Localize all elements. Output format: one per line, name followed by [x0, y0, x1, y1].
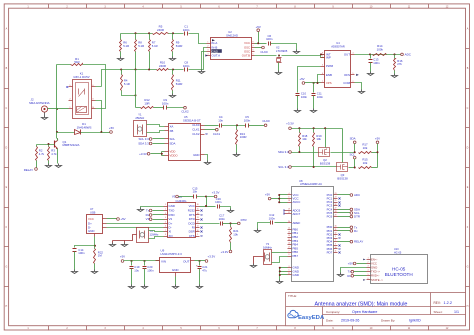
node rail junctions mid	[120, 69, 122, 71]
resistor R5	[153, 33, 169, 35]
wire SCL 3.3 row	[292, 166, 337, 168]
svg-text:OUT: OUT	[183, 260, 190, 264]
svg-text:100n: 100n	[215, 200, 222, 204]
EasyEDA logo	[288, 310, 298, 317]
svg-text:2019-09-26: 2019-09-26	[341, 319, 359, 323]
svg-text:20: 20	[288, 221, 290, 223]
svg-text:OFS: OFS	[344, 73, 350, 77]
svg-text:4.7k: 4.7k	[39, 152, 45, 156]
wire VCC rail MCU	[280, 194, 288, 196]
ground under C21	[197, 285, 203, 289]
wire PC5 SCL	[338, 212, 351, 214]
wire ladder drop	[135, 70, 137, 108]
no-connect HC-05 STATE	[363, 279, 365, 281]
svg-text:100n: 100n	[317, 95, 324, 99]
capacitor C10	[296, 94, 300, 96]
svg-text:11: 11	[335, 251, 337, 253]
svg-text:REV:: REV:	[434, 301, 441, 305]
svg-text:SDA 3.3: SDA 3.3	[278, 150, 289, 154]
capacitor C5	[246, 124, 249, 128]
IC U8 ATMEGA328P	[292, 187, 334, 282]
relay K1	[73, 80, 92, 119]
svg-text:+5V: +5V	[348, 262, 353, 266]
svg-text:5.1R: 5.1R	[152, 44, 158, 48]
svg-text:SDA 3.3: SDA 3.3	[138, 142, 149, 146]
wire HC-05 TXD	[354, 271, 367, 273]
node R4 tap	[135, 94, 137, 96]
ground under C11	[311, 109, 317, 113]
svg-text:SDA: SDA	[350, 137, 356, 141]
wire CLK0 out	[205, 125, 219, 127]
ground under C13	[368, 72, 374, 76]
svg-text:LM1117MPX-3.3: LM1117MPX-3.3	[161, 252, 183, 256]
svg-text:100n: 100n	[301, 95, 308, 99]
port CLK2 in	[184, 106, 187, 109]
svg-text:3: 3	[322, 64, 323, 66]
svg-text:5.1R: 5.1R	[124, 82, 130, 86]
svg-text:510R: 510R	[176, 44, 183, 48]
resistor R4	[121, 70, 123, 75]
svg-text:31: 31	[335, 229, 337, 231]
svg-text:10k: 10k	[302, 137, 307, 141]
svg-text:+3.3V: +3.3V	[139, 152, 147, 156]
port CLK1 out	[205, 129, 216, 131]
svg-text:XA: XA	[170, 125, 174, 129]
svg-text:CLK0: CLK0	[192, 123, 200, 127]
svg-text:H: H	[6, 305, 8, 308]
wire U2 OUT.B	[255, 55, 277, 57]
wire C5 to port	[249, 125, 265, 127]
svg-text:VIN: VIN	[161, 260, 166, 264]
svg-text:CTS: CTS	[189, 234, 195, 238]
svg-text:10k: 10k	[363, 161, 368, 165]
svg-text:2: 2	[335, 240, 336, 242]
svg-text:Antenna analyzer (SMD): Main m: Antenna analyzer (SMD): Main module	[315, 302, 408, 308]
ground at Y3	[251, 264, 257, 268]
svg-text:IgrikXD: IgrikXD	[409, 319, 421, 323]
port V3 CH340	[153, 219, 164, 221]
wire regulator gnd	[175, 277, 177, 285]
svg-text:H: H	[467, 305, 469, 308]
wire OSC port	[255, 47, 262, 49]
node OUT junctions	[369, 53, 371, 55]
svg-text:DTR: DTR	[241, 218, 247, 222]
ground under R22	[92, 270, 98, 274]
resistor R19	[313, 129, 315, 133]
port SCL 5V	[353, 156, 356, 159]
resistor R22	[94, 246, 96, 249]
ground under R16	[392, 74, 398, 78]
wire D1 to +5V	[102, 132, 110, 134]
svg-text:+5V: +5V	[120, 217, 125, 221]
no-connect PC1-PC3	[339, 198, 341, 200]
capacitor C8	[185, 68, 188, 72]
IC U6 CH340G	[168, 203, 196, 238]
svg-text:7: 7	[289, 250, 290, 252]
node +3.3V rail junctions	[298, 127, 300, 129]
svg-text:2: 2	[208, 46, 209, 48]
capacitor C16	[218, 205, 220, 209]
svg-text:14: 14	[197, 213, 199, 215]
svg-text:2: 2	[165, 209, 166, 211]
node USB gnd junction	[94, 245, 96, 247]
ground under J2	[44, 113, 46, 116]
port SDA 3.3 shifter	[289, 151, 292, 154]
svg-text:OUT: OUT	[344, 52, 350, 56]
svg-text:1N4148WS: 1N4148WS	[77, 125, 92, 129]
wire Y2 to XO	[149, 237, 164, 239]
wire PD4 RELAY	[338, 241, 351, 243]
svg-text:16: 16	[288, 243, 290, 245]
svg-text:G5V-1 DC5V: G5V-1 DC5V	[73, 75, 89, 79]
svg-text:+5V: +5V	[299, 77, 304, 81]
svg-text:47u: 47u	[202, 268, 207, 272]
wire HC-05 gnd	[341, 268, 367, 273]
svg-text:R232: R232	[188, 208, 195, 212]
svg-text:GND: GND	[193, 153, 199, 157]
svg-text:10k: 10k	[363, 146, 368, 150]
svg-text:ADC: ADC	[405, 52, 412, 56]
ground under R9	[170, 57, 176, 61]
svg-text:15: 15	[197, 209, 199, 211]
capacitor C9	[164, 106, 167, 110]
svg-text:1: 1	[335, 236, 336, 238]
svg-text:U2: U2	[228, 30, 232, 34]
capacitor C11	[313, 83, 315, 93]
svg-text:Tx: Tx	[146, 209, 150, 213]
capacitor C21	[199, 261, 201, 266]
svg-text:3: 3	[165, 213, 166, 215]
wire C15 to port	[197, 196, 215, 198]
svg-text:29: 29	[335, 215, 337, 217]
svg-text:SA612AD: SA612AD	[226, 33, 238, 37]
wire VPS to +5V	[305, 82, 321, 84]
node D1 junction	[100, 131, 102, 133]
svg-text:10u: 10u	[134, 268, 139, 272]
node R18 SDA junction	[298, 151, 300, 153]
svg-text:19: 19	[288, 208, 290, 210]
wire X2 to ground	[278, 63, 280, 71]
no-connect U4 OFS	[356, 74, 359, 76]
node VCC340 junction	[205, 196, 207, 198]
ground at HC-05	[338, 273, 344, 277]
wire MCU gnd rail	[280, 267, 288, 269]
svg-text:10: 10	[92, 107, 94, 109]
resistor R1	[71, 64, 83, 66]
svg-text:8: 8	[253, 41, 254, 43]
svg-text:TITLE:: TITLE:	[288, 294, 297, 298]
svg-text:4: 4	[353, 52, 354, 54]
ground under R6	[118, 57, 124, 61]
svg-text:23: 23	[335, 193, 337, 195]
svg-text:CLK1: CLK1	[213, 132, 221, 136]
svg-text:8: 8	[165, 234, 166, 236]
wire OUT rail	[195, 260, 206, 262]
svg-text:2: 2	[70, 98, 71, 100]
no-connect CH340 right pins	[201, 210, 203, 212]
svg-text:SCL: SCL	[349, 152, 355, 156]
wire USB gnd net	[75, 237, 95, 248]
svg-text:4: 4	[208, 54, 209, 56]
svg-text:12: 12	[197, 221, 199, 223]
wire CH340 gnd	[141, 207, 164, 208]
node DTR junction	[230, 222, 232, 224]
svg-text:Rx: Rx	[347, 274, 351, 278]
port DTR at MCU	[350, 215, 353, 218]
resistor R18	[299, 129, 301, 133]
svg-text:LTC6905: LTC6905	[276, 49, 288, 53]
svg-text:10: 10	[197, 230, 199, 232]
port SDA 3.3	[153, 143, 165, 145]
port Rx CH340	[153, 214, 164, 216]
svg-text:ADC7: ADC7	[293, 212, 301, 216]
svg-text:VDDO: VDDO	[170, 154, 179, 158]
svg-text:HC-05: HC-05	[392, 266, 406, 271]
node VCC340 pin junction	[205, 205, 207, 207]
port SDA 5V	[353, 141, 356, 144]
svg-text:5: 5	[165, 221, 166, 223]
port RELAY	[35, 168, 38, 171]
svg-text:4.7k: 4.7k	[51, 152, 57, 156]
svg-text:100k: 100k	[377, 47, 384, 51]
port +5V at MCU	[268, 197, 271, 200]
wire AREF	[275, 222, 288, 224]
wire +5V pullup rail	[377, 144, 379, 168]
no-connect PD2 PD3	[339, 234, 341, 236]
svg-text:100n: 100n	[183, 64, 190, 68]
wire Y2 to XI	[149, 231, 164, 232]
svg-text:6: 6	[322, 73, 323, 75]
wire C17 to port	[223, 223, 238, 225]
svg-text:Rx: Rx	[354, 229, 358, 233]
svg-text:U7: U7	[90, 207, 94, 211]
svg-text:100n: 100n	[269, 216, 276, 220]
ground under C10	[295, 109, 301, 113]
svg-text:ENB: ENB	[326, 73, 332, 77]
node VDD junction	[161, 153, 163, 155]
node rail junctions top	[135, 32, 137, 34]
svg-text:SCL: SCL	[170, 137, 176, 141]
svg-text:OUT.A: OUT.A	[212, 53, 221, 57]
svg-text:7: 7	[165, 230, 166, 232]
capacitor C14	[73, 249, 77, 252]
svg-text:51R: 51R	[74, 60, 79, 64]
svg-text:SI5351A-B-GT: SI5351A-B-GT	[183, 119, 201, 123]
port +5V at D1	[110, 131, 113, 134]
wire R12 feed	[136, 107, 141, 109]
svg-text:D: D	[467, 147, 469, 150]
wire SDA 3.3 row	[292, 152, 319, 154]
svg-text:1: 1	[165, 204, 166, 206]
svg-text:RELAY: RELAY	[24, 168, 33, 172]
svg-text:9: 9	[335, 243, 336, 245]
capacitor C1	[185, 32, 188, 36]
svg-text:+5V: +5V	[256, 25, 261, 29]
capacitor C19	[131, 261, 133, 266]
svg-text:SCL 3.3: SCL 3.3	[278, 165, 289, 169]
svg-text:C: C	[467, 107, 469, 110]
port Rx at MCU	[350, 230, 353, 233]
svg-text:TXD: TXD	[169, 208, 175, 212]
resistor R6	[120, 34, 122, 40]
ground under MCU	[277, 280, 283, 284]
svg-text:7: 7	[253, 46, 254, 48]
port ADC at MCU	[350, 194, 353, 197]
capacitor C4	[220, 124, 222, 128]
svg-text:U5: U5	[184, 115, 188, 119]
wire PD1 Rx	[338, 230, 351, 232]
svg-text:18: 18	[288, 200, 290, 202]
resistor R2	[36, 145, 38, 147]
wire PC6 DTR	[338, 216, 351, 218]
port DTR CH340	[238, 222, 241, 225]
svg-text:1.2.2: 1.2.2	[444, 301, 452, 305]
svg-text:+3.3V: +3.3V	[208, 255, 216, 259]
svg-text:3: 3	[289, 266, 290, 268]
crystal Y1	[134, 121, 147, 137]
svg-text:1/1: 1/1	[454, 310, 459, 314]
svg-text:Drawn By:: Drawn By:	[381, 319, 395, 323]
wire R17 right	[372, 152, 378, 154]
svg-text:HC-05: HC-05	[394, 251, 402, 254]
ground at Q1 emitter	[56, 164, 62, 168]
resistor R15	[359, 167, 372, 169]
no-connect U5 CLK2	[206, 134, 208, 135]
svg-text:5: 5	[70, 85, 71, 87]
svg-text:+5V: +5V	[109, 126, 114, 130]
svg-text:+3.3V: +3.3V	[212, 190, 220, 194]
svg-text:10R: 10R	[144, 101, 149, 105]
resistor R14	[373, 54, 387, 56]
svg-text:CH340G: CH340G	[176, 199, 187, 203]
port +5V above U2	[257, 29, 260, 32]
resistor R7	[149, 34, 151, 40]
wire PC4 SDA	[338, 209, 351, 211]
port +3.3V shifter	[289, 127, 292, 130]
svg-text:27: 27	[335, 207, 337, 209]
svg-text:240R: 240R	[159, 64, 166, 68]
ground right of C6	[294, 50, 300, 54]
port +3.3V CH340	[214, 195, 217, 198]
ground under R3	[46, 164, 52, 168]
op-amp U4 AD8307 log amp	[325, 51, 351, 88]
svg-text:5: 5	[253, 54, 254, 56]
node R19 SCL junction	[313, 166, 315, 168]
svg-text:1M: 1M	[98, 254, 103, 258]
no-connect U2 OUT.A	[205, 54, 208, 56]
svg-text:28: 28	[335, 211, 337, 213]
connector U7 USB	[87, 215, 103, 234]
svg-text:5.1R: 5.1R	[123, 44, 129, 48]
wire C4 C5	[222, 125, 246, 127]
port +5V regulator	[121, 260, 124, 263]
svg-text:VPS: VPS	[326, 81, 332, 85]
svg-text:PD7: PD7	[327, 250, 333, 254]
svg-text:10k: 10k	[316, 137, 321, 141]
svg-text:+5V: +5V	[265, 193, 270, 197]
svg-text:SCL 3.3: SCL 3.3	[138, 137, 149, 141]
svg-text:7: 7	[322, 81, 323, 83]
svg-text:CLK2: CLK2	[192, 132, 200, 136]
port +5V HC-05	[353, 262, 356, 265]
svg-text:8: 8	[93, 98, 94, 100]
svg-text:AD8307AR: AD8307AR	[331, 44, 345, 48]
svg-text:16MHz: 16MHz	[263, 245, 272, 249]
resistor R8	[135, 34, 137, 40]
no-connect HC-05 EN	[363, 259, 365, 261]
svg-text:OUT.B: OUT.B	[242, 53, 250, 57]
svg-text:2: 2	[353, 81, 354, 83]
node input rail junctions	[131, 260, 133, 262]
wire VDD rail	[151, 153, 162, 155]
svg-text:10n: 10n	[193, 190, 198, 194]
wire ENB to VPS rail	[318, 75, 321, 83]
port Rx HC-05	[351, 275, 354, 278]
transistor Q2 BSS138	[319, 148, 330, 157]
svg-text:32: 32	[335, 233, 337, 235]
wire OUT net	[355, 54, 401, 56]
ground at AREF	[255, 229, 261, 233]
svg-text:4: 4	[165, 217, 166, 219]
ground under C19	[129, 285, 135, 289]
capacitor C17	[221, 222, 223, 226]
svg-text:25MHz: 25MHz	[135, 116, 144, 120]
svg-text:5: 5	[289, 269, 290, 271]
svg-text:+5V: +5V	[120, 255, 125, 259]
resistor R13	[236, 126, 238, 130]
node antenna junction	[56, 108, 58, 110]
resistor R21	[230, 224, 232, 227]
wire SCL5 down	[354, 159, 356, 168]
diode D1 flyback	[57, 132, 75, 134]
IC U5 SI5351A	[169, 124, 201, 161]
wire Q2 to SDA5	[331, 152, 355, 154]
wire DTR row	[200, 223, 220, 225]
resistor R11	[172, 70, 174, 75]
svg-text:8: 8	[322, 52, 323, 54]
node CLK0 filter junction	[236, 124, 238, 126]
node +5V pullup junction	[377, 151, 379, 153]
port +3.3V out	[205, 260, 208, 263]
port SCL 3.3	[153, 138, 165, 140]
wire PC0 ADC	[338, 194, 351, 196]
port RELAY at MCU	[350, 240, 353, 243]
svg-text:V3: V3	[172, 195, 176, 199]
svg-text:26: 26	[335, 204, 337, 206]
svg-text:CLK0: CLK0	[262, 119, 270, 123]
svg-text:1: 1	[70, 107, 71, 109]
svg-text:100n: 100n	[162, 101, 169, 105]
svg-text:12: 12	[288, 228, 290, 230]
crystal Y2	[137, 228, 149, 243]
svg-text:100n: 100n	[78, 251, 85, 255]
svg-text:XB: XB	[170, 129, 174, 133]
transistor Q3 BSS138	[337, 163, 348, 172]
svg-text:6: 6	[253, 50, 254, 52]
svg-text:Date:: Date:	[326, 319, 334, 323]
svg-text:15: 15	[288, 239, 290, 241]
wire PWM filter	[298, 67, 321, 93]
wire SDA5 down	[354, 144, 356, 153]
svg-text:14: 14	[288, 235, 290, 237]
svg-text:100n: 100n	[147, 268, 154, 272]
svg-text:510R: 510R	[176, 82, 183, 86]
wire Y1 to XB	[147, 131, 165, 133]
wire Y2 ground left	[113, 235, 137, 243]
ground under C14	[72, 270, 78, 274]
svg-text:GND: GND	[169, 204, 175, 208]
node U2 VCC junction	[257, 42, 259, 44]
